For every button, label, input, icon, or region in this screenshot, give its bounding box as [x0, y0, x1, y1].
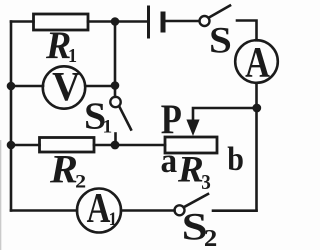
svg-text:2: 2: [75, 172, 86, 192]
svg-text:P: P: [161, 97, 182, 143]
svg-text:R: R: [177, 149, 204, 190]
svg-text:1: 1: [102, 117, 112, 138]
svg-text:A: A: [245, 39, 270, 87]
svg-text:V: V: [52, 63, 80, 109]
svg-text:b: b: [227, 139, 244, 177]
svg-text:A: A: [87, 185, 111, 232]
svg-text:a: a: [161, 141, 178, 180]
svg-text:1: 1: [109, 208, 117, 229]
svg-text:R: R: [45, 24, 71, 67]
svg-text:2: 2: [204, 224, 217, 250]
svg-text:S: S: [209, 20, 232, 61]
svg-text:R: R: [49, 147, 78, 191]
svg-text:3: 3: [201, 171, 211, 194]
